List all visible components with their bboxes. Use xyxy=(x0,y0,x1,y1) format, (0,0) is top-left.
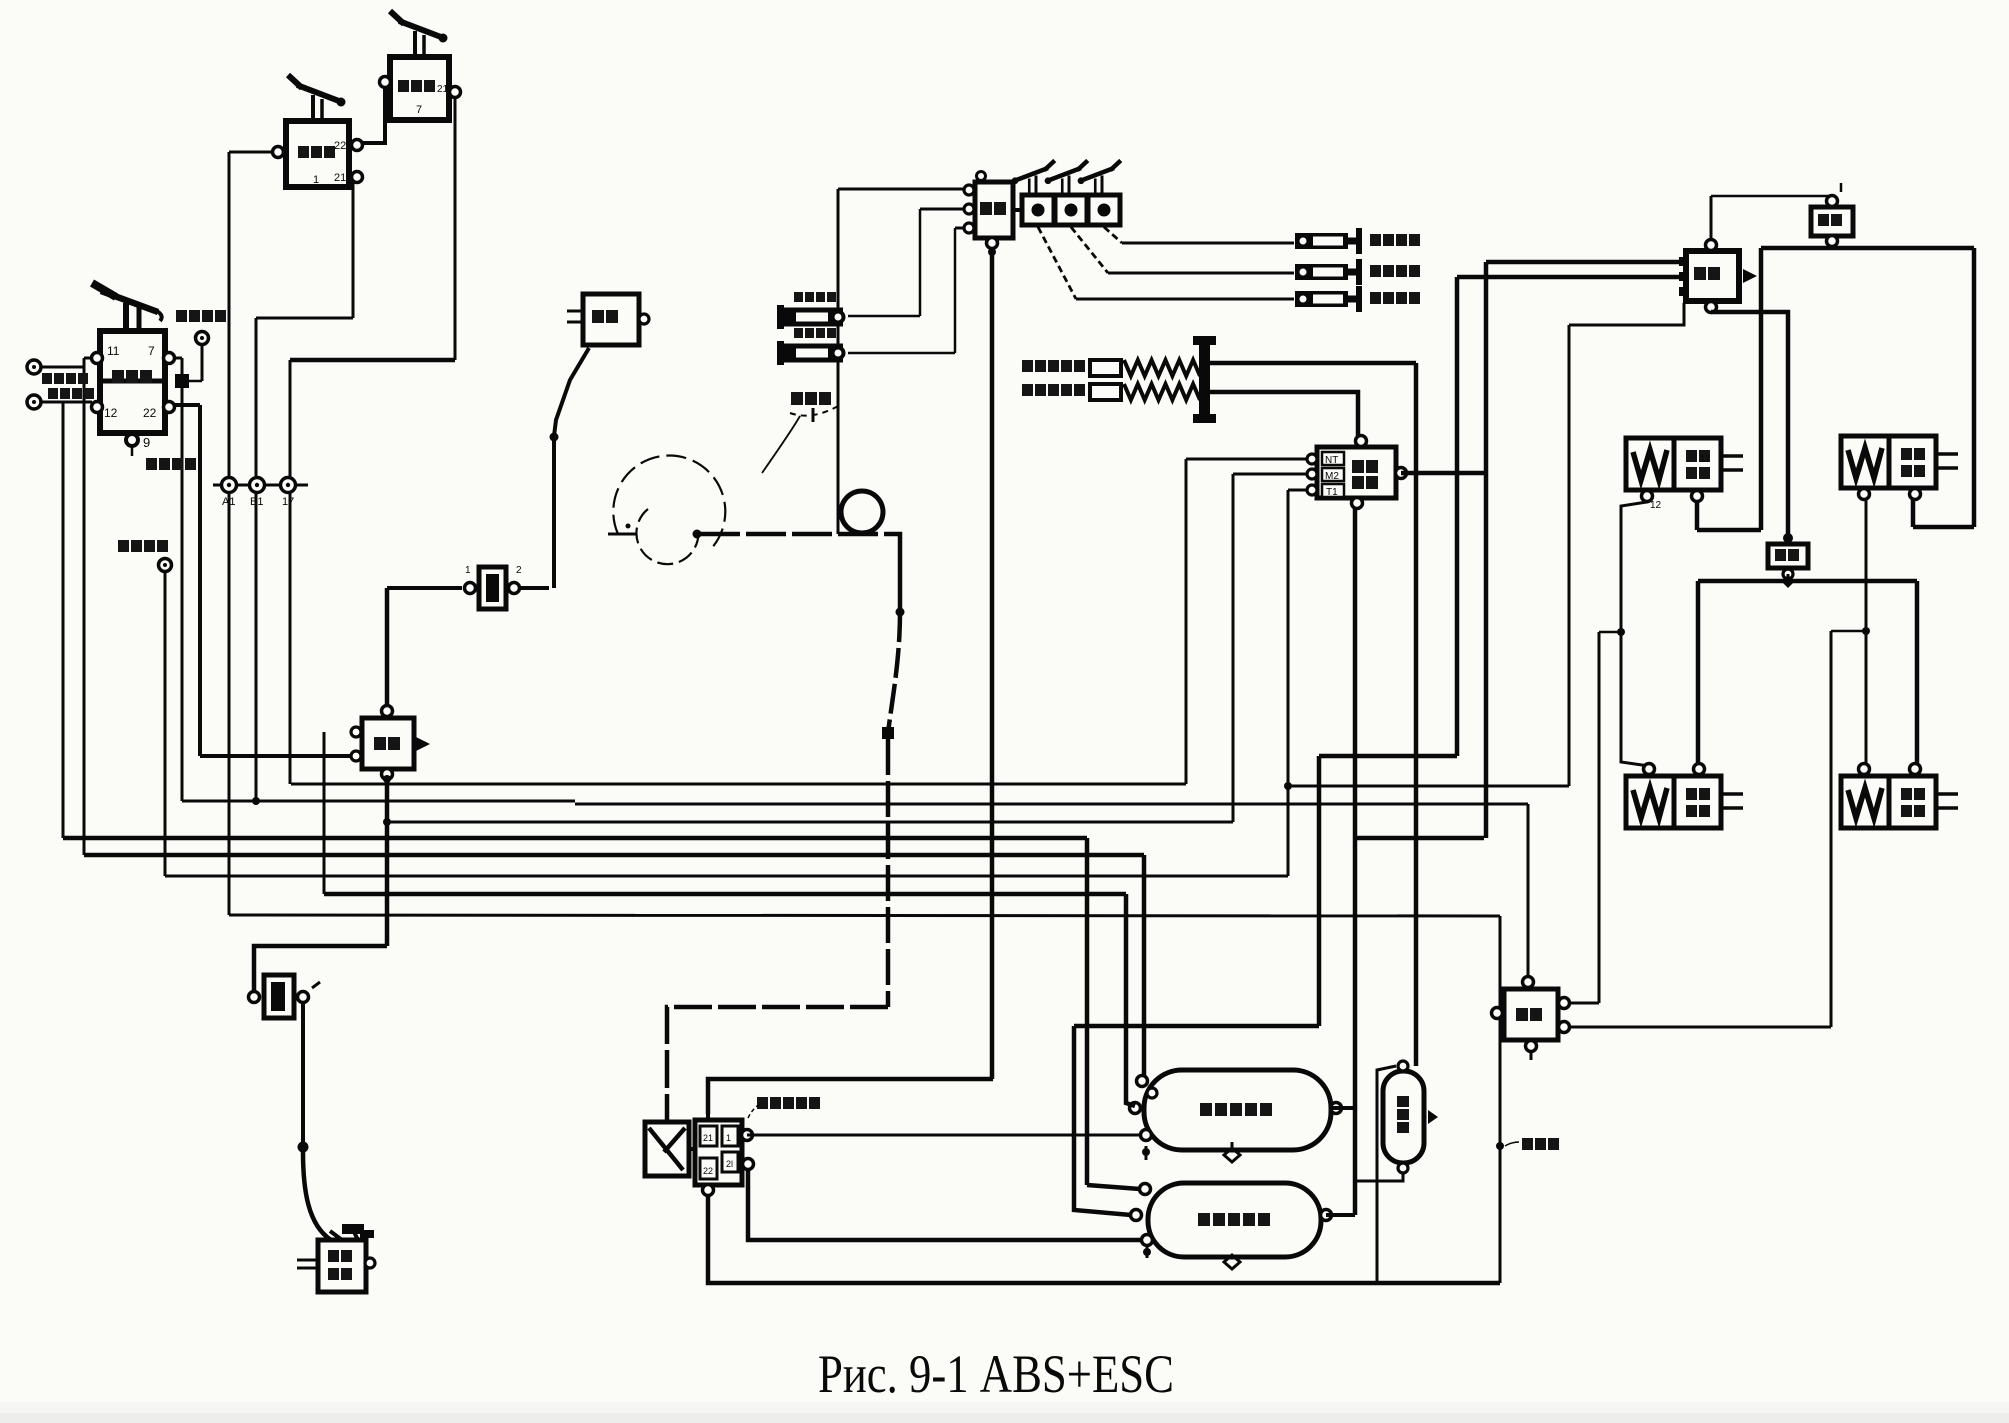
junction below block xyxy=(988,248,996,256)
label coupling supply xyxy=(1022,384,1085,396)
jog y360 xyxy=(290,358,455,363)
svg-text:B1: B1 xyxy=(250,496,263,508)
label air processing unit xyxy=(757,1097,820,1109)
engine label pointer xyxy=(762,416,800,473)
drop to chamber LL right xyxy=(1696,581,1701,769)
elbow down x900 xyxy=(893,534,900,612)
junction B1 line xyxy=(252,797,260,805)
tick xyxy=(312,982,320,988)
junction y822 xyxy=(383,818,391,826)
UL port a xyxy=(1642,491,1653,502)
wire y1027 to shuttle xyxy=(1564,1026,1831,1029)
to chamber UR right port xyxy=(1911,496,1916,527)
wire x324 4way upper port drop xyxy=(323,732,326,894)
valve1 port 22 xyxy=(352,140,363,151)
svg-text:21: 21 xyxy=(334,172,346,184)
wire y784 left band xyxy=(291,783,1186,786)
stub terminal2 to port12 xyxy=(34,401,92,404)
t2 port right xyxy=(1321,1210,1332,1221)
shuttle valve bottom right xyxy=(1504,989,1558,1040)
svg-text:9: 9 xyxy=(143,435,150,450)
UR port b xyxy=(1910,489,1921,500)
brake chamber lower-right xyxy=(1841,776,1958,828)
M2 riser xyxy=(1232,474,1235,822)
label coupling brake xyxy=(1022,360,1085,372)
UR port a xyxy=(1859,489,1870,500)
block bottom port xyxy=(987,238,998,249)
label master valve xyxy=(112,370,152,383)
manifold right-bottom port xyxy=(743,1159,754,1170)
pedal of box 3 xyxy=(1078,161,1121,196)
M2 wire xyxy=(1233,473,1307,476)
relay wire upper xyxy=(1486,260,1683,265)
stub t1 right xyxy=(1332,1106,1355,1110)
bold y1026 xyxy=(1074,1024,1319,1029)
brake chamber upper-left xyxy=(1626,438,1743,490)
wire y801 left xyxy=(182,800,575,803)
pressure switch terminal xyxy=(196,332,209,345)
svg-text:7: 7 xyxy=(148,344,155,358)
stub port11 xyxy=(84,357,95,360)
label left coupling 2 xyxy=(794,328,836,338)
relay bottom wire to modulator xyxy=(1711,312,1788,538)
riser relay upper / trailer T xyxy=(1484,262,1489,838)
junction x1866 xyxy=(1862,627,1870,635)
svg-text:22: 22 xyxy=(703,1166,713,1176)
node line xyxy=(213,484,308,487)
junction bend xyxy=(298,1142,309,1153)
svg-text:1: 1 xyxy=(726,1133,731,1143)
wire valve1-22 to valve2 xyxy=(356,82,390,143)
shuttle rt wire xyxy=(1570,1002,1599,1005)
brake master valve body xyxy=(100,331,165,433)
4way top port xyxy=(382,706,393,717)
valve1 left port xyxy=(273,147,284,158)
relay exhaust arrow xyxy=(1743,269,1757,283)
bottom line up to t3 xyxy=(1377,1066,1396,1283)
drop x1761 xyxy=(1759,248,1764,530)
link to pressure switch xyxy=(201,344,204,381)
wire y756 to 4way valve xyxy=(200,754,352,758)
riser relay lower xyxy=(1455,277,1460,756)
svg-text:A1: A1 xyxy=(222,496,235,508)
shuttle bottom port xyxy=(1526,1041,1537,1052)
ABS solenoid box top right xyxy=(1811,207,1853,236)
air tank 5.0L xyxy=(1148,1183,1321,1257)
block top port xyxy=(977,172,986,181)
drop to shuttle left x1500 xyxy=(1499,916,1502,1283)
riser coupling to t3 top xyxy=(1414,363,1419,1066)
wire x387 down to 4way xyxy=(385,588,390,711)
left coupling 2 xyxy=(777,341,784,365)
4way exhaust arrow xyxy=(416,737,430,751)
wire to air dryer xyxy=(667,1007,888,1110)
drop to compressor line xyxy=(837,189,840,534)
engine label stem xyxy=(812,408,815,422)
wire y838 right segment xyxy=(1353,836,1484,841)
LR port b xyxy=(1910,764,1921,775)
label coupling 2 xyxy=(1370,265,1420,277)
air tank 20L vertical xyxy=(1383,1071,1424,1163)
valve2 right port drop xyxy=(454,90,457,360)
label BY01 line1 xyxy=(42,373,88,384)
wire y855 band bold xyxy=(84,853,1144,858)
svg-text:12: 12 xyxy=(104,406,118,420)
t1 port right xyxy=(1331,1103,1342,1114)
wire 4way bottom drop xyxy=(385,779,390,946)
block port b xyxy=(964,204,974,214)
svg-text:21: 21 xyxy=(703,1133,713,1143)
stub t2 right xyxy=(1326,1213,1355,1217)
valve2 right port xyxy=(450,87,461,98)
terminal Pb480 xyxy=(27,395,41,409)
manifold right-top port xyxy=(742,1130,753,1141)
svg-text:Рис. 9-1 ABS+ESC: Рис. 9-1 ABS+ESC xyxy=(818,1344,1174,1404)
riser y1026 to t2 mid xyxy=(1074,1026,1131,1215)
wire x182 port7 drop xyxy=(181,358,184,801)
test coupling 2 xyxy=(1295,264,1348,280)
wire box3 diag xyxy=(1104,227,1122,243)
4way left port 1 xyxy=(351,727,361,737)
drop x1974 xyxy=(1972,248,1977,527)
pedal control box 3 xyxy=(1088,195,1120,225)
wire y786 right band xyxy=(1288,785,1569,788)
t1 drain xyxy=(1224,1148,1240,1162)
wire y838 band bold xyxy=(63,836,1087,841)
ABS modulator box xyxy=(1768,544,1808,568)
jog y318 xyxy=(256,317,353,320)
LL port b xyxy=(1694,764,1705,775)
t1 port lb xyxy=(1141,1130,1152,1141)
M2 port xyxy=(1307,469,1317,479)
LL port a xyxy=(1644,764,1655,775)
label brake switch xyxy=(146,458,196,470)
check valve near compressor xyxy=(264,975,294,1018)
svg-text:M2: M2 xyxy=(1325,471,1339,482)
modulator top junction xyxy=(1783,533,1793,543)
NT wire xyxy=(1186,458,1307,461)
wire check valve left xyxy=(387,586,462,590)
brake chamber lower-left xyxy=(1626,776,1743,828)
port 11 xyxy=(92,353,103,364)
test coupling 1 xyxy=(1295,233,1348,249)
wire y299 xyxy=(1076,298,1294,301)
svg-text:21: 21 xyxy=(437,84,449,95)
wire x290 "17" xyxy=(289,360,292,784)
junction T1/y786 xyxy=(1284,782,1292,790)
4way left port 2 xyxy=(351,751,361,761)
svg-text:22: 22 xyxy=(334,140,346,152)
shuttle top port xyxy=(1523,977,1534,988)
trailer right port xyxy=(1396,468,1407,479)
bold y581 xyxy=(1698,579,1917,584)
svg-text:T1: T1 xyxy=(1326,487,1338,498)
t1 port lm xyxy=(1130,1103,1141,1114)
t2 port lt xyxy=(1140,1184,1151,1195)
manifold bottom port xyxy=(703,1185,714,1196)
label ABS brake lamp xyxy=(118,540,168,552)
stub port7 xyxy=(171,357,182,360)
LR port a xyxy=(1859,764,1870,775)
relay top port xyxy=(1706,240,1717,251)
UL left to LL left chain xyxy=(1621,496,1649,766)
drain point xyxy=(1496,1142,1504,1150)
wire x63 drop xyxy=(62,402,65,838)
spring top xyxy=(1124,360,1200,376)
junction on drop xyxy=(896,608,905,617)
riser elbow to t2 lt port xyxy=(1087,1185,1140,1189)
svg-text:1: 1 xyxy=(465,565,471,576)
relay bottom port xyxy=(1706,302,1717,313)
wire x200 port22 drop xyxy=(198,405,202,756)
wire block top port left xyxy=(838,188,964,191)
pedal of box 1 xyxy=(1012,161,1055,196)
label engine xyxy=(791,392,831,405)
abs top port xyxy=(1827,196,1838,207)
wire down from check valve xyxy=(301,1003,305,1147)
t3 right arrow xyxy=(1428,1110,1438,1124)
left coupling 1 xyxy=(777,305,784,329)
master valve divider xyxy=(100,379,165,384)
port 9 xyxy=(126,434,138,446)
pedal of hand valve 2 xyxy=(390,11,448,57)
label drain xyxy=(1522,1138,1559,1150)
link block to pedal boxes xyxy=(1013,208,1022,212)
hand valve 1 body xyxy=(286,121,349,187)
check valve body xyxy=(479,567,506,609)
valve1 port21 drop xyxy=(352,177,355,318)
wire to check valve right xyxy=(521,586,549,590)
wire x256 B1 xyxy=(255,318,258,801)
wire y822 band xyxy=(386,821,1233,824)
svg-text:17: 17 xyxy=(282,496,294,508)
air tank 4.0L xyxy=(1144,1070,1331,1150)
spring bottom xyxy=(1124,384,1200,400)
riser y894 to t1 mid xyxy=(1126,894,1135,1106)
block port c xyxy=(964,223,974,233)
wire y876 band xyxy=(165,875,1288,878)
compressor line xyxy=(700,532,893,537)
relay thin corner wire xyxy=(1569,303,1684,325)
svg-text:12: 12 xyxy=(1650,500,1662,511)
wire bottom long line xyxy=(708,1195,1500,1283)
shuttle left port xyxy=(1492,1008,1503,1019)
pedal of master valve xyxy=(123,303,129,331)
modulator bottom port xyxy=(1783,569,1793,579)
svg-text:22: 22 xyxy=(143,406,157,420)
small bold circle xyxy=(841,491,883,533)
svg-text:2l: 2l xyxy=(726,1159,733,1169)
T1 wire xyxy=(1288,489,1307,492)
bold y756 right segment xyxy=(1319,754,1457,759)
svg-text:2: 2 xyxy=(516,565,522,576)
wire y894 band bold xyxy=(324,892,1126,897)
air dryer xyxy=(665,1110,670,1122)
drop x1319 xyxy=(1317,756,1322,1026)
trailer bottom port xyxy=(1352,498,1363,509)
one-way valve (air intake) xyxy=(583,294,639,345)
port 22 xyxy=(164,402,175,413)
label left coupling 1 xyxy=(794,292,836,302)
pedal of hand valve 1 xyxy=(288,75,346,121)
UR left to LR left chain xyxy=(1864,496,1866,764)
pedal control box 1 xyxy=(1022,195,1054,225)
label pressure switch group xyxy=(176,310,226,322)
t3 bottom port xyxy=(1398,1163,1408,1173)
port 12 xyxy=(92,402,103,413)
block port a xyxy=(964,185,974,195)
label hand valve 1 xyxy=(298,146,335,158)
wire x229 A1 riser xyxy=(228,152,231,915)
air pump xyxy=(318,1240,366,1292)
wire x84 drop xyxy=(83,358,86,855)
T1 riser xyxy=(1287,490,1290,876)
coupling bottom wire to trailer valve xyxy=(1210,392,1358,436)
engine arcs xyxy=(613,456,725,550)
wire cyl2 to block xyxy=(955,227,964,230)
relay wire lower xyxy=(1457,275,1683,280)
left port xyxy=(249,992,260,1003)
wire y915 band xyxy=(229,915,1500,916)
relay top wire xyxy=(1710,196,1713,240)
four-circuit protection valve block xyxy=(975,182,1013,238)
drop to shuttle top xyxy=(1527,804,1530,977)
svg-text:NT: NT xyxy=(1325,455,1338,466)
T1 port xyxy=(1307,485,1317,495)
check valve right port xyxy=(509,583,520,594)
four-way relay valve xyxy=(362,718,414,769)
stub port22 xyxy=(171,403,200,407)
junction xyxy=(550,433,559,442)
UL port b xyxy=(1692,491,1703,502)
terminal BY01 xyxy=(27,360,41,374)
t1 port lt xyxy=(1137,1076,1148,1087)
compressor out port xyxy=(693,530,702,539)
valve2 left port xyxy=(380,77,391,88)
drop x1599 to shuttle xyxy=(1598,632,1601,1003)
NT riser xyxy=(1185,459,1188,784)
t2 port lb xyxy=(1142,1235,1153,1246)
wire cyl1 to block xyxy=(920,208,964,211)
valve1 port 21 xyxy=(352,172,363,183)
trailer right port wire xyxy=(1401,471,1486,476)
label line2 xyxy=(48,388,94,399)
junction x1621 xyxy=(1617,628,1625,636)
svg-text:11: 11 xyxy=(1700,454,1711,465)
wire manifold top to x992 xyxy=(708,1079,993,1114)
wire diagonal to junction xyxy=(554,348,589,436)
t1 port lt2 xyxy=(1147,1088,1157,1098)
riser y838 to t2 top xyxy=(1085,838,1090,1185)
NT port xyxy=(1307,454,1317,464)
valve1 left port wire xyxy=(229,151,274,154)
wire x992 long drop bold xyxy=(990,247,995,1079)
wire y804 right xyxy=(575,803,1528,806)
riser y855 to t1 top xyxy=(1142,855,1147,1076)
bold line y248 xyxy=(1761,246,1974,251)
riser x1569 relay thin xyxy=(1568,325,1571,786)
air processing manifold xyxy=(695,1120,742,1185)
curved drop xyxy=(888,612,900,733)
wire y273 xyxy=(1108,272,1294,275)
junction square port7 xyxy=(175,374,189,388)
shuttle right-top port xyxy=(1559,998,1570,1009)
t3 top port xyxy=(1398,1061,1408,1071)
label coupling 1 xyxy=(1370,234,1420,246)
trailer valve drop x1355 xyxy=(1353,504,1358,1215)
drop x1831 xyxy=(1830,631,1833,1027)
svg-text:1: 1 xyxy=(313,174,319,186)
wire to lower check valve xyxy=(254,946,387,990)
stub terminal1 xyxy=(34,366,84,369)
trailer control valve xyxy=(1317,447,1396,498)
wire x165 ABS lamp drop xyxy=(164,572,167,876)
wire dryer to tank2 bottom xyxy=(748,1168,1147,1240)
label hand valve 2 xyxy=(398,80,435,92)
svg-text:11: 11 xyxy=(107,344,120,358)
t2 port lm xyxy=(1131,1210,1142,1221)
abs bottom port xyxy=(1827,236,1838,247)
test coupling 3 xyxy=(1295,291,1348,307)
pedal of box 2 xyxy=(1045,161,1088,196)
t3 bottom link xyxy=(1355,1172,1403,1181)
wire x554 drop to check valve xyxy=(552,437,556,588)
coupling top wire xyxy=(1210,361,1416,366)
svg-text:7: 7 xyxy=(416,104,422,116)
wire dryer to tank1 xyxy=(747,1134,1146,1137)
wire y243 xyxy=(1122,242,1294,245)
right port xyxy=(298,992,309,1003)
wire box2 diag xyxy=(1071,227,1108,273)
drop to chamber LR right xyxy=(1915,581,1920,769)
label coupling 3 xyxy=(1370,292,1420,304)
curved hose to air pump xyxy=(303,1152,331,1240)
to chamber UL right port xyxy=(1695,496,1700,530)
trailer top port xyxy=(1356,436,1367,447)
wire box1 diag xyxy=(1038,227,1076,299)
check valve left port xyxy=(465,583,476,594)
shuttle right-bottom port xyxy=(1559,1022,1570,1033)
pedal control box 2 xyxy=(1055,195,1087,225)
port 7 xyxy=(164,353,175,364)
4way bottom port xyxy=(382,769,393,780)
hand valve 2 body xyxy=(390,57,449,120)
engine left tick xyxy=(608,533,636,536)
ABS lamp terminal xyxy=(159,559,172,572)
brake chamber upper-right xyxy=(1841,436,1958,488)
t2 drain xyxy=(1224,1255,1240,1269)
wire x888 dashed drop xyxy=(886,739,891,1007)
